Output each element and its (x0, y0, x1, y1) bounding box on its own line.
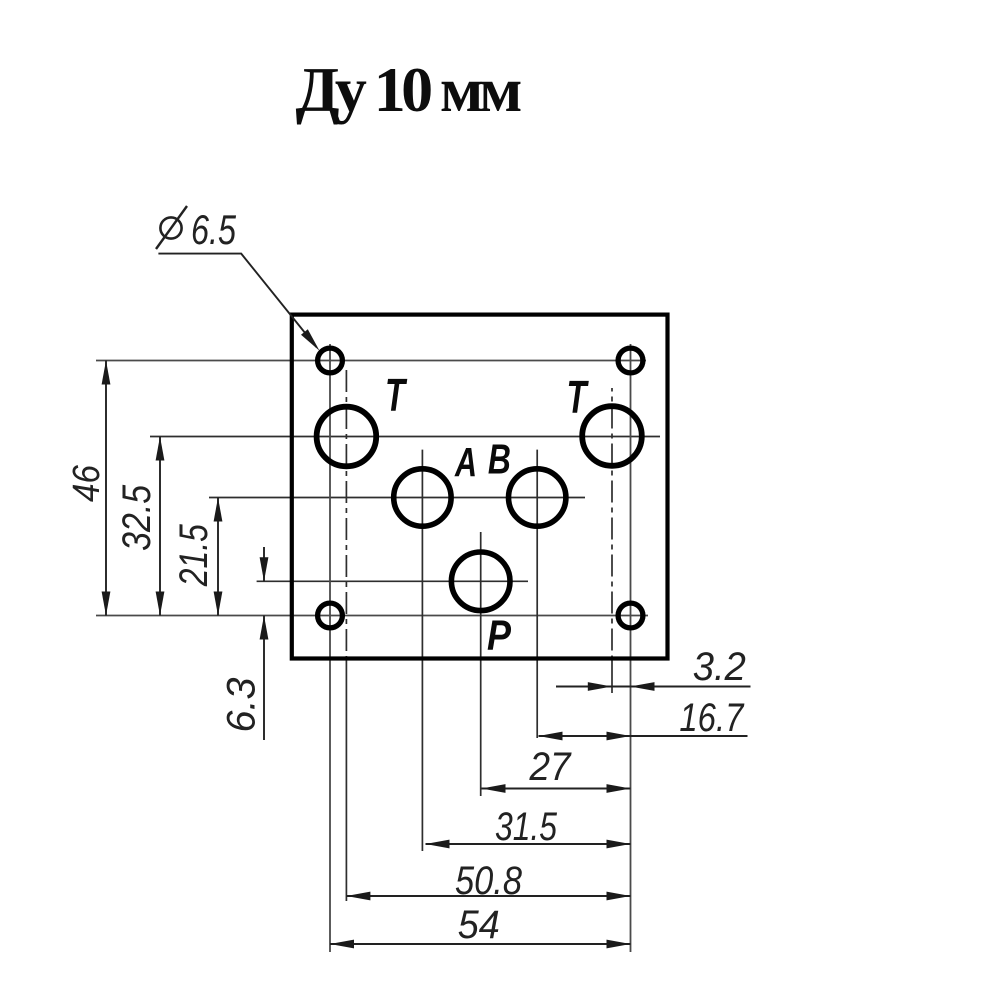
svg-text:27: 27 (529, 745, 573, 789)
mounting hole bottom-right (618, 603, 643, 628)
extension line P port row (257, 580, 528, 582)
mounting hole top-right (618, 348, 643, 373)
svg-text:54: 54 (458, 903, 500, 947)
dimension 32.5 line (159, 437, 161, 616)
leader arrowhead (301, 329, 320, 351)
dimension 6.3 upper tail (263, 547, 265, 581)
svg-text:P: P (487, 612, 511, 660)
svg-text:50.8: 50.8 (455, 859, 523, 903)
dimension 3.2 arrows (588, 682, 612, 691)
svg-text:31.5: 31.5 (495, 805, 558, 849)
dimension 50.8 line (346, 895, 630, 897)
extension line T ports row (150, 436, 660, 438)
leader line for hole diameter callout (158, 254, 316, 348)
dimension 3.2 line (556, 686, 612, 688)
dimension 31.5 line (426, 843, 631, 845)
svg-text:T: T (385, 369, 408, 421)
dimension 50.8 arrows (346, 892, 370, 901)
dimension 21.5 line (217, 498, 219, 616)
center line port B column (536, 450, 538, 738)
svg-text:6.3: 6.3 (220, 678, 264, 733)
port hole P (451, 552, 510, 611)
port hole T left (317, 407, 377, 467)
dimension 54 line (330, 943, 631, 945)
center line port P column (480, 532, 482, 796)
dimension 32.5 arrows (156, 437, 165, 461)
extension line A B ports row (209, 497, 585, 499)
mounting hole top-left (318, 348, 343, 373)
center line port A column (421, 450, 423, 851)
plate outline (292, 315, 668, 659)
diameter symbol (160, 217, 181, 238)
dimension 16.7 arrows (539, 732, 563, 741)
mounting hole bottom-left (318, 603, 343, 628)
svg-text:46: 46 (66, 464, 108, 502)
dimension 31.5 arrows (426, 840, 450, 849)
svg-text:16.7: 16.7 (679, 696, 744, 740)
dimension 54 arrows (330, 940, 354, 949)
dimension 6.3 lower tail (263, 616, 265, 741)
svg-text:B: B (488, 436, 511, 483)
center line port T right column (611, 388, 613, 657)
dimension 46 line (105, 361, 107, 616)
svg-text:6.5: 6.5 (191, 206, 236, 253)
extension line bottom holes row (96, 615, 648, 617)
port hole B (509, 469, 566, 526)
dimension 27 arrows (482, 784, 506, 793)
dimension 46 arrows (102, 361, 111, 385)
dimension 27 line (482, 788, 631, 790)
svg-text:A: A (454, 439, 477, 485)
center line port T left column (345, 370, 347, 657)
svg-text:3.2: 3.2 (693, 645, 746, 689)
dimension 6.3 upper arrow (260, 557, 269, 581)
dimension 21.5 arrows (214, 498, 223, 522)
svg-text:Ду 10 мм: Ду 10 мм (296, 54, 523, 125)
port hole T right (582, 406, 642, 466)
dimension 16.7 line (539, 735, 631, 737)
svg-text:32.5: 32.5 (115, 484, 159, 551)
extension line top holes row (96, 360, 646, 362)
svg-text:21.5: 21.5 (172, 524, 216, 587)
svg-text:T: T (567, 371, 590, 423)
center line left holes column (329, 344, 331, 952)
center line right holes column (630, 344, 632, 952)
dimension 6.3 lower arrow (260, 616, 269, 640)
port hole A (394, 469, 451, 526)
